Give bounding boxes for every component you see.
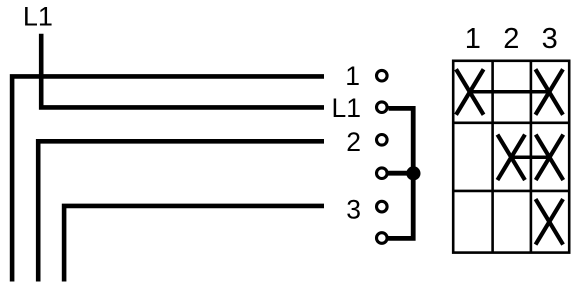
svg-text:1: 1 xyxy=(465,23,481,55)
contact X row3 col3 xyxy=(536,199,564,245)
svg-text:L1: L1 xyxy=(332,93,361,123)
contact terminal bottom (unlabeled) xyxy=(377,233,388,244)
contact terminal mid (unlabeled) xyxy=(377,168,388,179)
contact terminal 1 xyxy=(377,70,388,81)
contact table grid xyxy=(453,61,569,253)
wire 2 (horizontal row 2, corner down to bottom edge) xyxy=(38,141,324,281)
svg-text:1: 1 xyxy=(345,61,360,91)
svg-text:3: 3 xyxy=(346,195,361,225)
bridge wire row1 (positions 1-3) xyxy=(470,90,549,94)
bridge wire row2 (positions 2-3) xyxy=(511,155,549,159)
contact terminal 3 xyxy=(377,201,388,212)
contact X row2 col2 xyxy=(497,135,525,181)
junction dot xyxy=(406,166,420,180)
wire 3 (horizontal row 3, corner down to bottom edge) xyxy=(64,206,324,282)
contact X row1 col1 xyxy=(456,69,484,115)
contact terminal L1 xyxy=(377,102,388,113)
wire bracket (terminal L1 to bottom terminal) xyxy=(387,108,413,238)
svg-text:2: 2 xyxy=(503,23,519,55)
svg-text:2: 2 xyxy=(346,127,361,157)
svg-text:L1: L1 xyxy=(23,2,53,32)
wire 1 (horizontal row 1, corner down to bottom edge) xyxy=(12,76,324,281)
contact terminal 2 xyxy=(377,135,388,146)
contact X row2 col3 xyxy=(536,135,564,181)
contact X row1 col3 xyxy=(535,69,563,115)
svg-text:3: 3 xyxy=(542,23,558,55)
wire mid terminal to bracket xyxy=(388,171,413,176)
wire L1 (vertical drop from L1 label, then right to terminal L1) xyxy=(41,34,324,108)
